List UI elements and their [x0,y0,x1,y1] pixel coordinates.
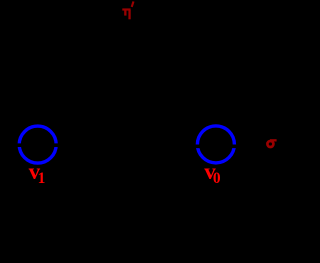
node label eta (top) [122,8,130,19]
transformer T1 (center, black) [127,60,138,230]
wire: horizontal through V0 (black, creates gaps in circle) [160,145,277,149]
voltage source V1 (left circle) [19,126,56,163]
wire: top rail (black, blends with background) [38,60,216,126]
prime mark on eta [132,1,134,7]
wire: horizontal through V1 (black, creates gaps in circle) [0,143,95,147]
svg-text:1: 1 [38,170,46,187]
node label sigma (right output terminal) [267,141,273,147]
voltage source V0 (right circle) [197,126,234,163]
wire: bottom rail [38,163,216,230]
svg-text:0: 0 [213,170,221,187]
